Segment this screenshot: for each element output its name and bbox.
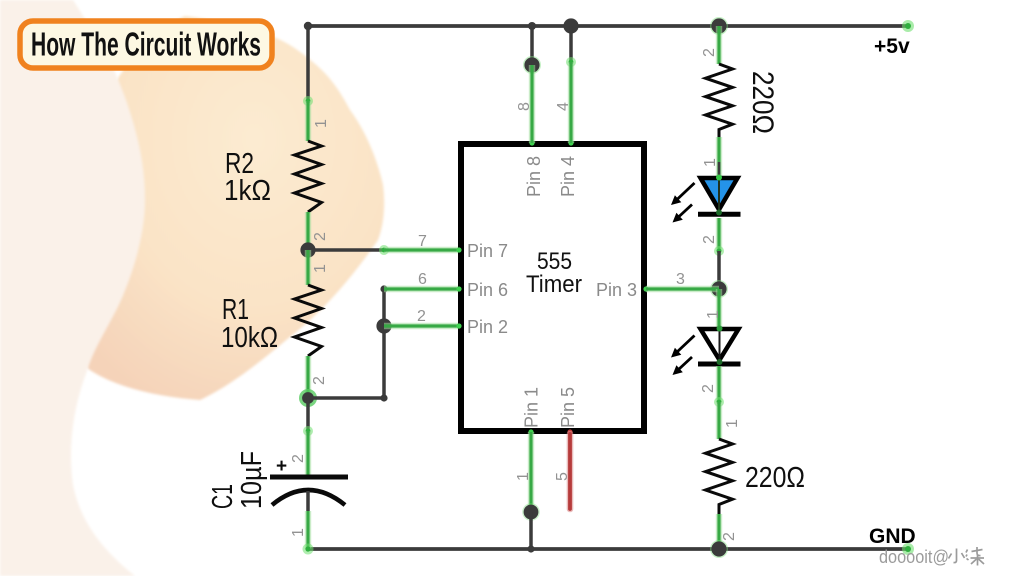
svg-text:5: 5 bbox=[554, 472, 571, 481]
wire C1 bottom lead bbox=[290, 491, 314, 555]
svg-text:Pin 2: Pin 2 bbox=[467, 317, 508, 337]
wire Pin 8 from rail bbox=[516, 22, 541, 143]
wire junction to LED2 bbox=[705, 289, 722, 327]
IC 555 timer U1 bbox=[461, 144, 644, 431]
svg-text:2: 2 bbox=[311, 376, 328, 385]
svg-text:1: 1 bbox=[705, 310, 722, 319]
svg-text:7: 7 bbox=[418, 233, 427, 250]
endpoint +5v rail right bbox=[902, 20, 914, 32]
wire to Pin 7 bbox=[308, 233, 459, 255]
svg-text:How The Circuit Works: How The Circuit Works bbox=[31, 26, 261, 63]
wire Pin 4 from rail bbox=[555, 18, 579, 143]
capacitor C1 bbox=[207, 451, 348, 509]
wire C1 top lead bbox=[290, 398, 313, 476]
svg-text:+: + bbox=[276, 456, 287, 477]
svg-text:Pin 8: Pin 8 bbox=[524, 156, 544, 197]
wire R2 bottom lead bbox=[308, 212, 329, 250]
wire Pin 5 (red, unconnected) bbox=[554, 434, 571, 509]
wire net to pin6/pin2 vertical bbox=[308, 285, 388, 401]
wire LED1 to pin3 junction bbox=[701, 218, 724, 289]
svg-text:10µF: 10µF bbox=[236, 451, 268, 509]
wire R1 top lead bbox=[308, 250, 329, 285]
resistor R3 220 ohm (top right) bbox=[706, 64, 780, 137]
resistor R2 bbox=[224, 141, 322, 212]
junction GND rail / R4 bbox=[710, 540, 728, 558]
svg-text:2: 2 bbox=[417, 308, 426, 325]
junction pin2 net bbox=[376, 318, 391, 333]
svg-text:+5v: +5v bbox=[874, 35, 910, 58]
svg-text:2: 2 bbox=[290, 454, 307, 463]
wire bottom GND rail bbox=[308, 547, 908, 551]
LED D2 (white) bbox=[671, 326, 741, 376]
junction R1/C1/Pin2-6 net bbox=[299, 389, 317, 407]
wire R1 bottom lead bbox=[308, 356, 328, 398]
resistor R1 bbox=[221, 285, 322, 356]
pin connection dots on IC bbox=[456, 140, 648, 434]
svg-text:C1: C1 bbox=[207, 484, 239, 509]
wire 220 ohm top from rail bbox=[701, 17, 728, 64]
svg-text:Pin 4: Pin 4 bbox=[558, 156, 578, 197]
svg-text:Pin 7: Pin 7 bbox=[467, 241, 508, 261]
svg-text:1: 1 bbox=[313, 119, 330, 128]
junction pin3 node bbox=[710, 280, 728, 298]
svg-text:1: 1 bbox=[515, 472, 532, 481]
svg-text:Pin 3: Pin 3 bbox=[596, 280, 637, 300]
resistor R4 220 ohm (bottom right) bbox=[706, 439, 806, 514]
svg-text:1: 1 bbox=[312, 264, 329, 273]
svg-text:6: 6 bbox=[418, 271, 427, 288]
LED D1 (blue) bbox=[671, 175, 741, 223]
title box bbox=[20, 21, 272, 68]
svg-text:220Ω: 220Ω bbox=[746, 71, 779, 134]
svg-text:2: 2 bbox=[701, 48, 718, 57]
svg-text:2: 2 bbox=[312, 232, 329, 241]
svg-text:8: 8 bbox=[516, 102, 533, 111]
svg-text:4: 4 bbox=[555, 102, 572, 111]
junction R2/R1/Pin7 bbox=[300, 242, 315, 257]
endpoint GND rail right bbox=[902, 543, 914, 555]
svg-text:10kΩ: 10kΩ bbox=[221, 322, 278, 354]
wire +5v top rail bbox=[308, 24, 908, 28]
svg-text:Timer: Timer bbox=[526, 271, 582, 298]
svg-text:Pin 1: Pin 1 bbox=[522, 387, 542, 428]
wire LED2 to R4 bbox=[700, 366, 741, 439]
svg-text:Pin 6: Pin 6 bbox=[467, 280, 508, 300]
wire to Pin 2 bbox=[384, 308, 459, 326]
wire R3 to LED1 bbox=[702, 137, 719, 176]
svg-text:1: 1 bbox=[290, 528, 307, 537]
wire Pin 1 to GND rail bbox=[515, 432, 540, 553]
svg-text:2: 2 bbox=[700, 384, 717, 393]
svg-text:Pin 5: Pin 5 bbox=[558, 387, 578, 428]
svg-text:2: 2 bbox=[701, 235, 718, 244]
svg-text:dooooit@: dooooit@ bbox=[879, 547, 949, 567]
watermark bbox=[879, 547, 984, 567]
svg-text:1: 1 bbox=[724, 419, 741, 428]
svg-text:3: 3 bbox=[676, 271, 685, 288]
svg-text:220Ω: 220Ω bbox=[745, 462, 805, 494]
svg-text:1: 1 bbox=[702, 158, 719, 167]
svg-text:2: 2 bbox=[721, 532, 738, 541]
wire R4 to GND rail bbox=[719, 514, 738, 549]
wire to Pin 6 bbox=[384, 271, 459, 289]
wire Pin 3 bbox=[646, 271, 719, 289]
wire left column from +5v rail to R2 bbox=[303, 22, 330, 141]
svg-text:1kΩ: 1kΩ bbox=[224, 175, 271, 207]
